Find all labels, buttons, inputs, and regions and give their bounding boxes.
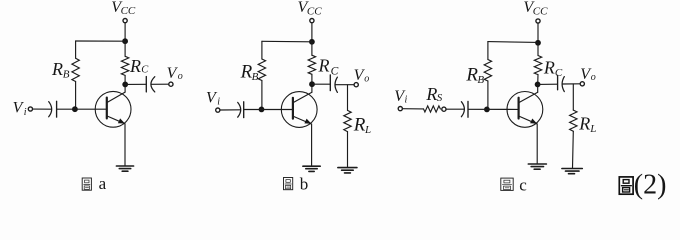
- svg-text:R: R: [578, 114, 590, 134]
- svg-text:B: B: [477, 74, 484, 86]
- capacitor input coupling (a): [49, 101, 57, 117]
- capacitor output coupling (b): [330, 75, 337, 93]
- transistor Q3 base bar (c): [517, 98, 519, 119]
- transistor Q2 emitter lead with arrow (b): [293, 116, 312, 124]
- svg-text:(2): (2): [634, 170, 667, 201]
- wire RC upper lead (b): [311, 42, 313, 55]
- resistor RC (a): [121, 56, 128, 75]
- wire output node to output cap (b): [312, 83, 330, 85]
- svg-text:S: S: [437, 92, 443, 104]
- capacitor input coupling (c): [461, 101, 468, 117]
- wire emitter to ground (c): [536, 124, 538, 164]
- transistor Q1 emitter lead with arrow (a): [107, 116, 125, 124]
- wire RL lower lead (c): [572, 131, 575, 168]
- svg-text:B: B: [252, 71, 259, 83]
- resistor RL (c): [570, 110, 577, 131]
- label RC (a): [129, 56, 149, 76]
- wire output cap to Vo (a): [151, 83, 169, 85]
- wire Vi to input cap (a): [33, 108, 52, 110]
- wire rail to RB top (b): [262, 40, 312, 43]
- svg-text:L: L: [589, 123, 596, 135]
- label figure (2): [619, 170, 666, 201]
- wire output cap to Vo (c): [562, 83, 580, 85]
- label Vo (a): [167, 65, 183, 82]
- transistor Q2 base bar (b): [292, 98, 294, 119]
- svg-text:L: L: [364, 124, 371, 136]
- label VCC (a): [111, 0, 136, 17]
- svg-text:o: o: [178, 71, 183, 82]
- wire output cap to Vo (b): [335, 84, 354, 86]
- ground emitter (c): [528, 164, 546, 169]
- resistor RB (b): [258, 59, 265, 81]
- transistor Q2 circle (b): [281, 92, 317, 128]
- ground RL (c): [562, 169, 582, 174]
- label RB (a): [51, 59, 70, 81]
- VCC terminal (a): [123, 19, 127, 23]
- node rail junction dot (b): [309, 39, 315, 45]
- label Vi (a): [13, 99, 27, 118]
- capacitor output coupling (a): [146, 77, 155, 92]
- wire VCC terminal to rail node (c): [537, 23, 539, 43]
- wire RS terminal to input cap (c): [446, 108, 464, 110]
- transistor Q1 base bar (a): [106, 98, 108, 119]
- svg-text:V: V: [13, 99, 25, 116]
- terminal after RS (c): [442, 107, 446, 111]
- wire collector to output node (b): [311, 84, 313, 92]
- wire Vo line to RL top (b): [347, 85, 349, 111]
- svg-text:R: R: [51, 59, 63, 79]
- label RS (c): [425, 84, 442, 104]
- wire collector to output node (a): [124, 84, 126, 92]
- wire collector to output node (c): [537, 84, 539, 92]
- capacitor input coupling (b): [238, 102, 244, 118]
- node base junction dot (b): [259, 107, 265, 113]
- capacitor output coupling (c): [558, 75, 565, 91]
- ground emitter (b): [303, 166, 320, 171]
- label Vi (b): [206, 90, 220, 108]
- ground (a): [116, 166, 133, 171]
- output terminal Vo (c): [580, 82, 584, 86]
- transistor Q1 collector lead (a): [107, 92, 125, 103]
- node rail junction dot (c): [535, 40, 541, 46]
- wire RB upper lead (a): [75, 41, 77, 58]
- wire RB lower lead (b): [261, 81, 263, 110]
- wire Vi to input cap (b): [220, 109, 240, 111]
- label figure c: [501, 175, 528, 194]
- svg-text:V: V: [206, 90, 218, 107]
- wire emitter to ground (b): [311, 124, 313, 166]
- ground RL (b): [338, 168, 357, 173]
- wire rail to RB top (a): [76, 40, 126, 42]
- wire RB upper lead (b): [261, 41, 263, 59]
- svg-text:B: B: [63, 69, 70, 81]
- wire input cap to base (a): [57, 108, 107, 110]
- svg-text:R: R: [425, 84, 437, 104]
- wire rail to RB top (c): [488, 41, 538, 44]
- node output junction dot (c): [535, 82, 541, 88]
- svg-text:R: R: [543, 58, 555, 78]
- svg-text:o: o: [364, 73, 369, 84]
- svg-text:C: C: [141, 65, 149, 76]
- node base junction dot (a): [72, 106, 78, 112]
- transistor Q2 collector lead (b): [293, 92, 312, 103]
- VCC terminal (b): [310, 19, 314, 23]
- node output junction dot (a): [122, 82, 128, 88]
- resistor RB (a): [72, 58, 79, 81]
- wire VCC terminal to rail node (b): [311, 23, 313, 42]
- wire input cap to base (b): [244, 109, 293, 111]
- label Vo (b): [354, 67, 370, 84]
- svg-text:b: b: [300, 175, 309, 194]
- label Vi (c): [394, 88, 407, 105]
- node rail junction dot (a): [122, 38, 128, 44]
- label Vo (c): [580, 66, 596, 83]
- label RL (c): [578, 114, 596, 136]
- wire Vi to RS (c): [402, 108, 423, 110]
- svg-text:R: R: [318, 56, 330, 76]
- input terminal Vi (c): [398, 107, 402, 111]
- transistor Q3 circle (c): [507, 92, 543, 128]
- wire RC upper lead (a): [124, 41, 126, 56]
- wire Vo line to RL top (c): [572, 84, 574, 110]
- svg-text:CC: CC: [121, 5, 136, 17]
- label RL (b): [353, 115, 371, 136]
- label VCC (c): [523, 0, 548, 17]
- output terminal Vo (b): [354, 83, 358, 87]
- resistor RC (c): [534, 56, 541, 75]
- node output junction dot (b): [309, 81, 315, 87]
- input terminal Vi (a): [28, 107, 32, 111]
- wire RC upper lead (c): [537, 43, 539, 56]
- svg-text:a: a: [99, 174, 107, 193]
- svg-text:CC: CC: [307, 5, 322, 17]
- transistor Q1 circle (a): [95, 91, 131, 127]
- wire RC lower lead (a): [124, 75, 126, 84]
- svg-text:R: R: [353, 115, 366, 136]
- transistor Q3 collector lead (c): [519, 92, 538, 103]
- label RB (b): [240, 61, 259, 83]
- label RC (c): [543, 58, 563, 80]
- svg-text:R: R: [129, 56, 141, 76]
- wire output node to output cap (c): [538, 83, 558, 85]
- label figure b: [284, 175, 309, 194]
- transistor Q3 emitter lead with arrow (c): [519, 116, 538, 124]
- svg-text:i: i: [405, 94, 408, 105]
- svg-text:C: C: [331, 65, 339, 77]
- VCC terminal (c): [536, 19, 540, 23]
- node base junction dot (c): [484, 107, 490, 113]
- svg-text:C: C: [555, 67, 563, 79]
- resistor RC (b): [308, 55, 315, 74]
- wire RL lower lead (b): [347, 132, 349, 168]
- wire RB lower lead (a): [75, 82, 77, 110]
- wire emitter to ground (a): [124, 124, 126, 166]
- svg-text:i: i: [24, 107, 27, 118]
- wire RB lower lead (c): [487, 81, 489, 109]
- label RB (c): [465, 64, 484, 85]
- wire input cap to base (c): [468, 108, 519, 110]
- input terminal Vi (b): [216, 108, 220, 112]
- wire RC lower lead (b): [311, 74, 313, 84]
- svg-text:CC: CC: [533, 5, 548, 17]
- label RC (b): [318, 56, 339, 78]
- resistor RL (b): [344, 110, 351, 131]
- svg-text:c: c: [519, 175, 527, 194]
- wire output node to output cap (a): [125, 83, 146, 85]
- svg-text:i: i: [217, 96, 220, 107]
- wire RC lower lead (c): [537, 75, 539, 85]
- label figure a: [82, 174, 106, 193]
- wire RB upper lead (c): [487, 42, 489, 60]
- svg-text:o: o: [591, 72, 596, 83]
- wire VCC terminal to rail node (a): [124, 23, 126, 41]
- resistor RS (c): [424, 106, 441, 112]
- output terminal Vo (a): [169, 82, 173, 86]
- resistor RB (c): [484, 60, 491, 82]
- label VCC (b): [298, 0, 323, 17]
